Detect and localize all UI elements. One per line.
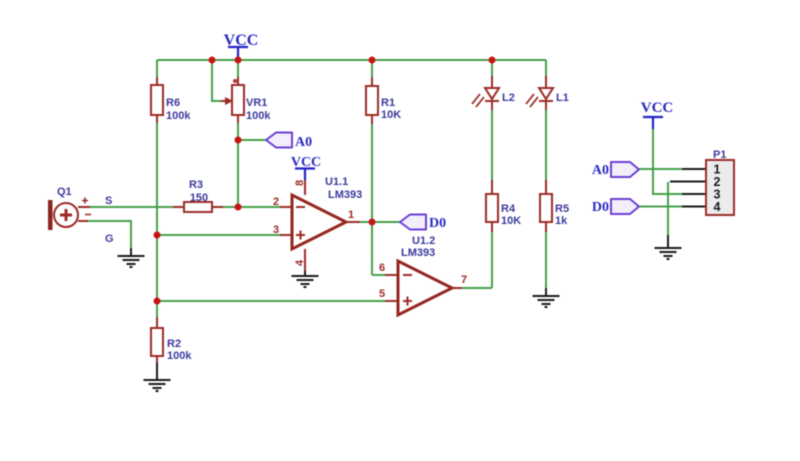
svg-text:VCC: VCC bbox=[224, 32, 259, 49]
svg-text:S: S bbox=[105, 195, 112, 207]
svg-text:VCC: VCC bbox=[291, 155, 321, 170]
svg-text:L2: L2 bbox=[502, 92, 515, 104]
svg-text:R2: R2 bbox=[167, 338, 181, 350]
svg-text:G: G bbox=[105, 233, 114, 245]
svg-text:A0: A0 bbox=[592, 163, 609, 178]
svg-text:LM393: LM393 bbox=[328, 189, 362, 201]
svg-text:6: 6 bbox=[379, 262, 385, 274]
svg-text:4: 4 bbox=[714, 200, 721, 214]
svg-text:LM393: LM393 bbox=[401, 247, 435, 259]
svg-text:VCC: VCC bbox=[641, 100, 674, 116]
svg-text:R4: R4 bbox=[501, 203, 516, 215]
svg-text:R3: R3 bbox=[189, 179, 203, 191]
svg-text:R6: R6 bbox=[166, 97, 180, 109]
svg-text:100k: 100k bbox=[246, 110, 271, 122]
svg-text:2: 2 bbox=[273, 196, 279, 208]
svg-text:10K: 10K bbox=[501, 215, 521, 227]
svg-text:U1.1: U1.1 bbox=[325, 176, 348, 188]
svg-text:R5: R5 bbox=[555, 203, 569, 215]
svg-text:100k: 100k bbox=[167, 350, 192, 362]
svg-text:D0: D0 bbox=[429, 216, 446, 231]
svg-text:3: 3 bbox=[273, 224, 279, 236]
svg-text:L1: L1 bbox=[556, 92, 569, 104]
svg-text:7: 7 bbox=[461, 274, 467, 286]
svg-text:U1.2: U1.2 bbox=[412, 235, 435, 247]
svg-text:R1: R1 bbox=[381, 97, 395, 109]
svg-text:150: 150 bbox=[190, 192, 208, 204]
svg-text:4: 4 bbox=[294, 259, 306, 266]
svg-text:100k: 100k bbox=[166, 110, 191, 122]
svg-text:A0: A0 bbox=[295, 135, 312, 150]
svg-text:D0: D0 bbox=[592, 200, 609, 215]
svg-text:8: 8 bbox=[294, 180, 306, 186]
svg-text:1: 1 bbox=[348, 209, 354, 221]
svg-text:10K: 10K bbox=[381, 109, 401, 121]
svg-text:5: 5 bbox=[379, 288, 385, 300]
svg-text:Q1: Q1 bbox=[57, 186, 72, 198]
svg-text:1k: 1k bbox=[555, 215, 568, 227]
svg-text:VR1: VR1 bbox=[246, 97, 267, 109]
